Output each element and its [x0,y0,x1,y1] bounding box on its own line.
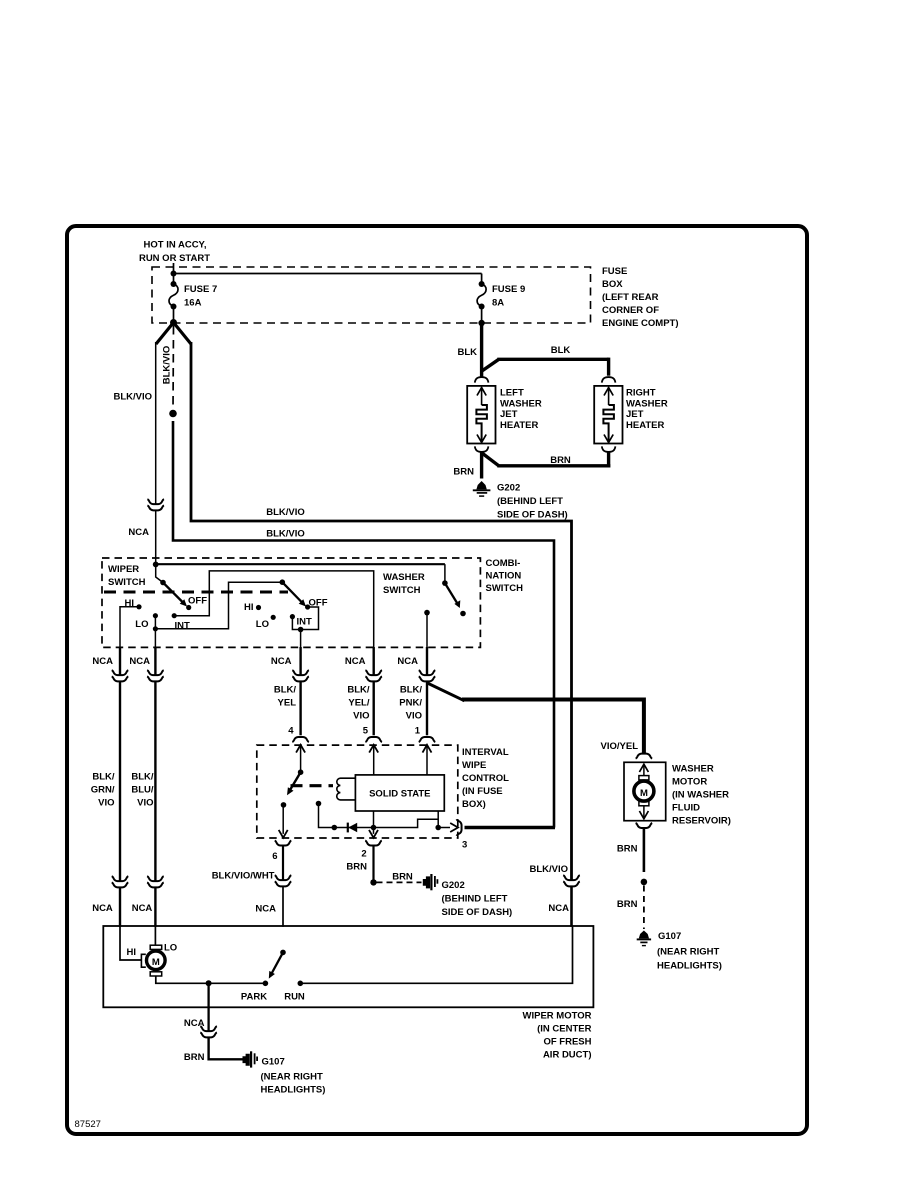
fuse box dashed outline [152,267,591,323]
svg-text:HEADLIGHTS): HEADLIGHTS) [657,961,722,972]
contact RUN [284,981,305,1003]
svg-text:VIO: VIO [98,798,114,809]
svg-text:YEL: YEL [278,698,297,709]
wire BRN return from right heater [481,452,610,468]
svg-text:(IN CENTER: (IN CENTER [537,1024,592,1035]
ground G107 (near right headlights) washer [637,931,722,972]
svg-text:BRN: BRN [184,1052,205,1063]
heater element RIGHT WASHER JET HEATER [594,386,668,444]
svg-text:NCA: NCA [548,903,569,914]
svg-text:CORNER OF: CORNER OF [602,305,659,316]
svg-text:G107: G107 [658,931,681,942]
node pin 3 junction [435,825,441,831]
svg-text:1: 1 [415,726,421,737]
svg-text:(IN WASHER: (IN WASHER [672,790,729,801]
svg-text:CONTROL: CONTROL [462,773,509,784]
svg-text:NCA: NCA [129,656,150,667]
connector inline wire 2 lower [132,876,164,914]
wire INT contact over to pin 5 output [174,571,374,648]
wire VIO/YEL feed to washer motor [462,700,644,754]
svg-text:WASHER: WASHER [383,572,425,583]
svg-text:M: M [152,957,160,968]
svg-text:BLK/: BLK/ [92,772,115,783]
wire feed bus to washer switch [156,563,445,565]
wire left leg below connector [155,511,157,563]
svg-text:(IN FUSE: (IN FUSE [462,786,503,797]
node BRN splice washer [641,879,648,886]
wire BLK/YEL pin 4 of interval wipe control [271,647,301,675]
contact LO pole 1 [135,613,158,631]
svg-text:LEFT: LEFT [500,388,524,399]
ground G107 (near right headlights) wiper [243,1051,326,1095]
svg-text:BLU/: BLU/ [131,785,154,796]
svg-text:NCA: NCA [397,656,418,667]
svg-text:LO: LO [135,619,148,630]
contact OFF pole 1 [186,596,207,611]
wire 1 into wiper motor box [119,888,121,927]
connector cup below washer motor [636,823,653,828]
svg-text:WIPER: WIPER [108,564,139,575]
pin 1 entry arrow [423,745,432,775]
wire BLK/YEL/VIO pin 5 of interval wipe control [345,647,374,675]
wire pin 5 lower segment [347,682,373,737]
svg-text:BOX: BOX [602,279,623,290]
washer switch label [383,572,425,596]
wire 1 middle segment [91,682,120,881]
svg-text:BLK/VIO: BLK/VIO [529,864,568,875]
node common junction [206,980,212,986]
svg-text:G107: G107 [262,1057,285,1068]
svg-text:SIDE OF DASH): SIDE OF DASH) [497,510,568,521]
wire HI contact to output [120,607,139,648]
svg-text:(NEAR RIGHT: (NEAR RIGHT [261,1072,323,1083]
wiper motor box outline [103,926,593,1007]
node pin 2 junction [371,825,377,831]
connector cap pin 6 [275,841,292,846]
svg-text:(LEFT REAR: (LEFT REAR [602,292,659,303]
switch arm wiper switch pole 1 [160,580,187,607]
svg-text:PNK/: PNK/ [399,698,422,709]
connector cap above right heater [602,377,616,383]
svg-text:BRN: BRN [550,455,571,466]
svg-text:BLK/: BLK/ [274,685,297,696]
wire pin 1 lower segment [399,682,427,737]
node splice below fuse 7 [170,319,177,326]
diagram border frame [67,226,807,1134]
svg-text:LO: LO [256,619,269,630]
svg-text:WIPE: WIPE [462,760,486,771]
fuse F7 16A [169,281,217,321]
svg-text:BRN: BRN [346,862,367,873]
connector cup below right heater [602,446,616,452]
contact OFF pole 2 [305,598,328,610]
switch arm interval relay [287,769,303,795]
svg-text:RUN OR START: RUN OR START [139,253,210,264]
svg-text:BLK/VIO: BLK/VIO [113,392,152,403]
svg-text:G202: G202 [442,880,465,891]
pin 2 exit arrow [369,828,378,838]
diode D1 [334,823,373,833]
svg-text:BLK/: BLK/ [400,685,423,696]
wire RUN contact to wire B [300,927,572,984]
switch arm wiper switch pole 2 [280,579,307,606]
svg-text:JET: JET [500,409,518,420]
wire BRN dashed to ground G107 [617,886,644,930]
wire BRN washer motor to splice [617,829,644,872]
connector cap pin 2 [365,841,382,846]
node HOT IN ACCY, RUN OR START [139,240,210,265]
svg-text:NCA: NCA [345,656,366,667]
svg-text:SWITCH: SWITCH [486,583,524,594]
svg-text:BLK/VIO: BLK/VIO [266,529,305,540]
svg-text:GRN/: GRN/ [91,785,115,796]
wire LO contact down [154,616,156,648]
connector inline wire B [548,875,579,914]
svg-text:16A: 16A [184,298,202,309]
wire B into wiper motor box [570,887,573,927]
svg-text:BLK/VIO: BLK/VIO [266,507,305,518]
svg-text:2: 2 [361,849,366,860]
svg-text:HEATER: HEATER [626,420,664,431]
switch arm park/run [269,950,286,979]
svg-text:JET: JET [626,409,644,420]
connector NCA inline on left leg [128,499,164,538]
contact washer switch output [424,610,430,648]
relay coil [337,778,356,800]
wire feed to wiper switch arm pivot [156,564,163,582]
svg-text:BLK: BLK [551,345,571,356]
svg-text:INT: INT [297,617,313,628]
ground G202 (behind left side of dash) [473,481,568,521]
svg-text:NCA: NCA [92,656,113,667]
svg-text:NCA: NCA [128,527,149,538]
wire HI input to motor brush [120,926,141,960]
contact LO pole 2 [256,615,276,630]
svg-text:RUN: RUN [284,992,305,1003]
connector inline pin 5 wire [365,670,382,681]
svg-text:SWITCH: SWITCH [383,585,421,596]
svg-text:VIO: VIO [137,798,153,809]
wire BRN dashed to ground [377,872,422,883]
wire pin 4 down [300,630,302,649]
svg-text:VIO: VIO [406,711,422,722]
wire branch to washer motor feed [427,683,464,701]
connector inline pin 4 wire [292,670,309,681]
svg-text:WASHER: WASHER [626,398,668,409]
node diode line left junction [332,825,338,831]
connector cup below left heater [475,446,489,452]
wire solid state to pin 3 junction [437,811,439,828]
fuse F9 8A [477,274,525,324]
wire B BLK/VIO to wiper motor run contact [173,421,554,828]
svg-text:NCA: NCA [92,903,113,914]
brush contact HI [141,954,145,967]
interval wipe control label [462,747,509,810]
wire BRN to ground G107 [184,1038,244,1063]
connector cap above left heater [475,377,489,383]
node BRN splice [370,879,376,885]
wire LO contact to pole 2 pivot [155,582,282,629]
ground G202 (behind left side of dash) right [423,874,512,918]
svg-text:FUSE 9: FUSE 9 [492,284,525,295]
wire 2 into wiper motor box [154,888,156,927]
wire BLK branch to right heater [482,345,609,376]
svg-text:(BEHIND LEFT: (BEHIND LEFT [497,496,563,507]
wire branch left of splice [156,323,174,345]
svg-text:WASHER: WASHER [672,764,714,775]
washer motor M2 (in washer fluid reservoir) [624,762,666,820]
connector cap pin 3 [457,819,462,836]
svg-text:FLUID: FLUID [672,803,700,814]
svg-text:SWITCH: SWITCH [108,577,146,588]
svg-text:BRN: BRN [392,872,413,883]
svg-text:INT: INT [175,621,191,632]
connector inline wire 2 upper [147,670,164,681]
wire solid state bottom output [373,811,375,828]
svg-text:HEADLIGHTS): HEADLIGHTS) [261,1085,326,1096]
wiper motor M1 [147,945,166,976]
wire BLK/VIO left leg down to combination switch [113,342,155,504]
svg-text:5: 5 [363,726,369,737]
interval wipe control dashed outline [257,745,458,838]
wire BRN pin 2 to splice [346,846,373,879]
connector cap pin 4 [292,737,309,742]
svg-text:YEL/: YEL/ [348,698,369,709]
solid state module U1 [355,775,444,811]
svg-text:4: 4 [288,726,294,737]
svg-text:FUSE: FUSE [602,266,627,277]
svg-text:M: M [640,788,648,799]
svg-text:BLK/VIO/WHT: BLK/VIO/WHT [212,871,275,882]
connector inline pin 1 wire [419,670,436,681]
washer motor label [672,764,731,827]
svg-text:(BEHIND LEFT: (BEHIND LEFT [442,894,508,905]
wire BLK/VIO middle dashed leg [162,326,174,411]
svg-text:FUSE 7: FUSE 7 [184,284,217,295]
svg-text:8A: 8A [492,298,504,309]
svg-text:WIPER MOTOR: WIPER MOTOR [523,1011,592,1022]
svg-text:OFF: OFF [188,596,207,607]
wire pin 4 lower segment [274,682,301,737]
mechanical linkage dashed to relay coil [291,784,334,787]
wire test point to diode line [319,804,335,828]
svg-text:ENGINE COMPT): ENGINE COMPT) [602,318,679,329]
svg-text:(NEAR RIGHT: (NEAR RIGHT [657,947,719,958]
svg-text:BLK: BLK [457,347,477,358]
svg-text:PARK: PARK [241,992,267,1003]
svg-text:NCA: NCA [271,656,292,667]
wire 2 middle segment [131,682,155,881]
combination switch label [486,558,524,594]
svg-text:OF FRESH: OF FRESH [543,1037,591,1048]
svg-text:BRN: BRN [453,467,474,478]
node pin 4 junction [298,627,304,633]
pin 4 entry arrow [296,745,305,770]
svg-text:AIR DUCT): AIR DUCT) [543,1050,592,1061]
wiper switch label [108,564,146,588]
svg-text:RIGHT: RIGHT [626,388,656,399]
switch arm washer switch [442,564,466,616]
node junction dot above fuse 7 [171,271,177,277]
svg-text:3: 3 [462,840,467,851]
contact INT pole 2 [290,614,312,628]
heater element LEFT WASHER JET HEATER [467,386,542,444]
wire from hot feed into fuse box [173,263,175,285]
connector inline wire 1 upper [112,670,129,681]
svg-text:COMBI-: COMBI- [486,558,521,569]
svg-text:NATION: NATION [486,571,522,582]
svg-text:G202: G202 [497,483,520,494]
svg-text:LO: LO [164,943,177,954]
fuse box label [602,266,679,329]
svg-text:RESERVOIR): RESERVOIR) [672,816,731,827]
wire bus to fuse 9 [174,273,482,275]
node splice on middle leg [169,410,177,418]
svg-text:BRN: BRN [617,899,638,910]
svg-text:BLK/: BLK/ [347,685,370,696]
wiper motor label [523,1011,592,1061]
wire branch right of splice [174,323,192,345]
connector cap pin 1 [419,737,436,742]
svg-text:HEATER: HEATER [500,420,538,431]
svg-text:VIO: VIO [353,711,369,722]
wire BRN from left heater to ground [453,452,481,479]
wire BLK/VIO/WHT pin 6 down [212,846,283,881]
mechanical linkage dashed [104,591,288,594]
wire pin 6 into wiper motor box [282,887,284,927]
wire LO input to motor brush [155,926,177,954]
wire 2 BLK/BLU/VIO to wiper motor LO [129,647,155,675]
wire common ground exit [184,983,209,1031]
wire jog to pin 3 [374,819,439,827]
svg-text:SIDE OF DASH): SIDE OF DASH) [442,907,513,918]
wire BLK from fuse 9 down [480,323,483,377]
svg-text:NCA: NCA [255,904,276,915]
contact PARK [241,981,268,1003]
connector cap pin 5 [365,737,382,742]
svg-text:VIO/YEL: VIO/YEL [601,741,639,752]
connector inline wire 1 lower [92,876,128,914]
svg-text:87527: 87527 [75,1119,101,1130]
contact INT pole 1 [172,613,190,631]
wire contact to pin 6 exit [279,805,288,838]
node test point dot [316,801,322,807]
svg-text:6: 6 [272,851,277,862]
svg-text:HI: HI [127,947,137,958]
pin 3 exit arrow [438,823,458,832]
wire 1 BLK/GRN/VIO to wiper motor HI [92,647,120,675]
node feed junction in wiper switch [153,562,159,568]
contact interval relay [281,802,287,808]
connector cap above washer motor [636,754,653,759]
svg-text:HOT IN ACCY,: HOT IN ACCY, [144,240,207,251]
pin 5 entry arrow [369,745,378,775]
svg-text:BOX): BOX) [462,799,486,810]
node junction dot below fuse 9 [478,320,484,326]
svg-text:BLK/VIO: BLK/VIO [162,346,173,385]
svg-text:MOTOR: MOTOR [672,777,707,788]
contact HI pole 1 [125,598,142,609]
combination switch dashed outline [102,558,480,647]
svg-text:INTERVAL: INTERVAL [462,747,509,758]
wire OFF and INT pole 2 to pin 4 output [292,607,318,630]
connector inline ground wire [200,1026,217,1037]
svg-text:HI: HI [244,602,254,613]
wire A BLK/VIO to interval wipe control pin 3 [191,342,572,880]
connector inline pin 6 wire [255,875,291,914]
wire BLK/PNK/VIO pin 1 of interval wipe control [397,647,427,675]
svg-text:BLK/: BLK/ [131,772,154,783]
wire motor common to park contact [156,976,266,983]
contact HI pole 2 [244,602,261,613]
svg-text:SOLID STATE: SOLID STATE [369,789,430,800]
svg-text:WASHER: WASHER [500,398,542,409]
svg-text:BRN: BRN [617,844,638,855]
svg-text:NCA: NCA [132,903,153,914]
